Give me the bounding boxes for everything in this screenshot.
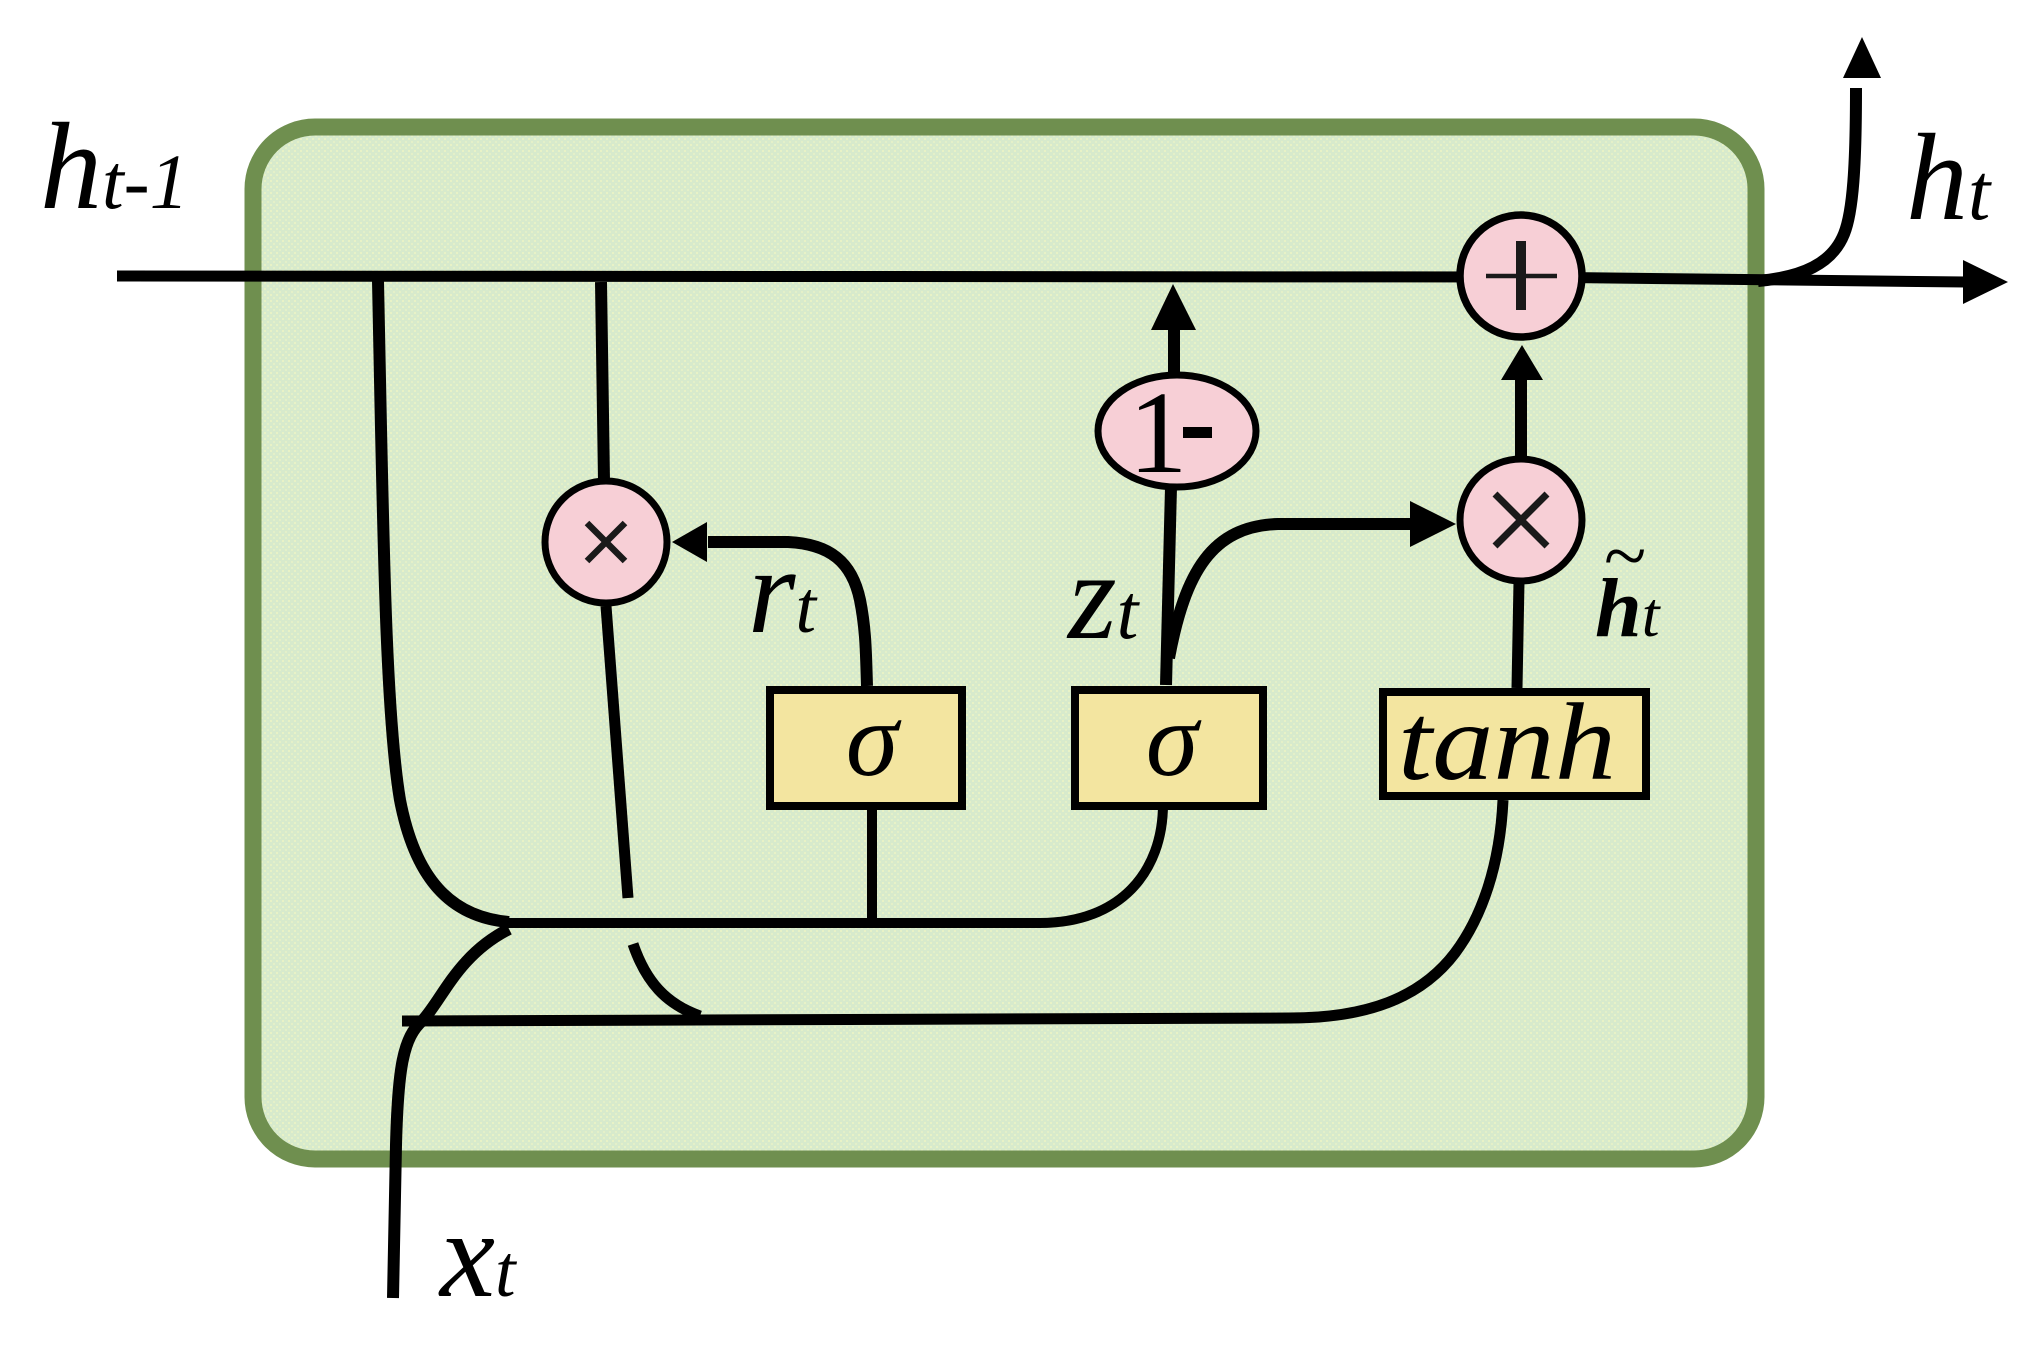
wire: h(t-1) into multiply-left [601, 282, 604, 481]
arrowhead: 1- into top line [1151, 284, 1196, 330]
wire: bus2 (x(t)+r*h to tanh) [402, 800, 1503, 1021]
svg-text:ht: ht [1906, 109, 1992, 246]
wire: tanh stem up to multiply-right [1517, 582, 1519, 688]
wire: r(t) from sigma-r to multiply-left with arrowhead [708, 542, 867, 686]
wire: output branch curving up to h(t) [1758, 88, 1856, 281]
wire: x(t) input rising and curving toward junction [393, 929, 509, 1298]
svg-text:σ: σ [846, 681, 902, 798]
wire: sigma-r stem to bus1 [867, 801, 877, 923]
svg-text:σ: σ [1146, 681, 1202, 798]
wire: z(t) line from sigma-z up through 1- to top line [1166, 487, 1171, 685]
multiply-left node [545, 481, 667, 603]
wire: multiply-left output (descends, hops bus1, joins bus2) [606, 606, 628, 898]
1- node [1098, 375, 1256, 487]
svg-text:tanh: tanh [1398, 681, 1616, 803]
arrowhead: up output [1843, 37, 1881, 78]
plus node (adder) [1460, 215, 1582, 337]
wire: h(t-1) top horizontal line with output arrowhead [117, 276, 1966, 282]
tanh gate box [1383, 692, 1646, 796]
sigma-z gate box [1075, 690, 1263, 806]
multiply-right node [1460, 459, 1582, 581]
wire: h branch drop (left vertical, curving into bus1) [378, 281, 509, 922]
GRU cell body (green rounded box) [253, 127, 1756, 1159]
svg-text:xt: xt [438, 1186, 518, 1323]
wire: multiply-right up into plus with arrowhead [1515, 376, 1527, 458]
sigma-r gate box [770, 690, 962, 806]
svg-text:1: 1 [1129, 367, 1188, 498]
wire: bus1 (h(t-1)+x(t) to gates) [503, 804, 1163, 923]
svg-text:ht-1: ht-1 [40, 98, 189, 235]
arrowhead: right output [1963, 260, 2008, 304]
wire: z branch to multiply-right with arrowhead [1169, 524, 1414, 658]
